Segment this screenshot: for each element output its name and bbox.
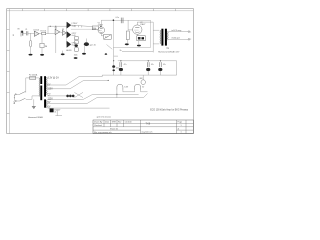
- wire filter cap feed vertical: [113, 48, 115, 76]
- transformer T1 core bar right lower: [44, 99, 46, 107]
- wire drop to NE1: [30, 33, 32, 40]
- jumper arc J3: [135, 84, 141, 90]
- svg-text:OP27: OP27: [72, 33, 77, 35]
- neon lamp NE1: [29, 40, 31, 47]
- wire heater rail lower bend: [144, 94, 148, 98]
- wire top bus: [48, 25, 67, 27]
- switch S1 pole A: [16, 93, 20, 95]
- transformer T2 secondary winding: [166, 32, 169, 40]
- svg-text:T-68: T-68: [146, 123, 151, 125]
- wire secondary tap C stub: [47, 95, 66, 97]
- ground symbol under NE1: [29, 54, 33, 56]
- wire ground rail B: [102, 74, 176, 76]
- svg-text:0.1u: 0.1u: [116, 17, 120, 19]
- svg-text:47u: 47u: [163, 64, 166, 66]
- title block horizontal line 1: [93, 122, 193, 124]
- resistor R6 series: [92, 26, 98, 30]
- wire primary feed vertical: [152, 22, 154, 52]
- transformer T1 primary winding: [38, 78, 41, 96]
- op-amp U4C: [67, 41, 71, 47]
- junction node V1 plate: [100, 26, 101, 27]
- wire rail C right drop: [176, 61, 178, 75]
- ground symbol mid: [61, 53, 65, 55]
- svg-text:330k: 330k: [92, 28, 96, 30]
- frame tick marks left edge: [7, 30, 10, 114]
- title block vertical 2: [110, 120, 112, 127]
- frame tick marks top edge: [23, 9, 176, 11]
- capacitor C6 filter: [120, 62, 122, 67]
- resistor R7 grid leak V2: [126, 31, 129, 40]
- wire R2 to ground: [41, 48, 43, 54]
- ground symbol under R7: [125, 43, 129, 45]
- wire feedback net: [71, 28, 96, 30]
- op-amp U2: [55, 29, 60, 34]
- junction heater rail: [116, 94, 117, 95]
- wire heater rail lower: [97, 97, 144, 99]
- wire secondary tap E stub: [47, 103, 87, 105]
- junction tap B rail: [108, 80, 109, 81]
- svg-text:2: 2: [190, 39, 191, 41]
- wire gnd stub: [114, 55, 118, 57]
- svg-text:115V: 115V: [48, 98, 54, 100]
- wire V1 plate run to shield box: [101, 19, 113, 21]
- wire jumper J2 left leg: [116, 90, 118, 98]
- title block vertical 7: [185, 120, 187, 134]
- junction filter vertical on rail: [113, 60, 114, 61]
- capacitor C2 polarized: [75, 44, 78, 47]
- svg-text:47u: 47u: [151, 64, 154, 66]
- capacitor C8 filter: [159, 62, 161, 67]
- wire NE1 to ground: [30, 47, 32, 54]
- wire B plus rail C: [118, 60, 177, 62]
- capacitor C3 coupling: [121, 18, 123, 24]
- wire down to V2 grid: [127, 20, 129, 30]
- plug pin A: [15, 94, 16, 95]
- ground symbol under feedback chain: [74, 57, 78, 59]
- wire jumper J3 left leg: [134, 90, 136, 92]
- resistor R2 grid leak: [40, 43, 44, 47]
- plug pin B: [15, 100, 16, 101]
- wire tap D diagonal up: [83, 94, 93, 99]
- svg-text:1.0 draft: 1.0 draft: [125, 120, 132, 123]
- wire bottom rail: [48, 107, 110, 109]
- resistor R3 feedback: [75, 37, 79, 40]
- wire jumper link: [123, 91, 135, 93]
- svg-text:AD620: AD620: [66, 49, 71, 52]
- cathode network box Rk Ck: [137, 36, 146, 41]
- potentiometer RV2: [104, 34, 112, 39]
- regulator VR1: [141, 80, 145, 85]
- wire tap E diagonal up: [87, 98, 97, 104]
- svg-text:1: 1: [181, 132, 182, 134]
- wire stack input vertical: [66, 25, 68, 44]
- shield box around output stage: [113, 20, 150, 47]
- wire tap B rail: [84, 79, 109, 81]
- wire trimmer stub: [85, 39, 87, 43]
- transformer T1 core bar right upper: [44, 76, 46, 96]
- wire stub net label riser: [56, 111, 58, 116]
- junction node box corner: [113, 19, 115, 21]
- wire buffer to R1: [39, 33, 41, 35]
- svg-text:ECG 100 kSa/s Amp for EKG Prea: ECG 100 kSa/s Amp for EKG Preamp: [150, 109, 189, 112]
- wire J3 out: [141, 91, 148, 93]
- wire primary top stub: [38, 77, 40, 79]
- ground symbol chassis: [32, 107, 36, 109]
- svg-text:Checked:: Checked:: [94, 125, 102, 127]
- wire R7 bottom to ground: [127, 40, 129, 44]
- wire jumper J3 right leg: [140, 90, 142, 92]
- svg-text:Sheet 1/1: Sheet 1/1: [110, 128, 118, 131]
- tube V1 triode: [98, 27, 105, 34]
- wire bottom rail left riser: [47, 107, 49, 109]
- wire secondary lead lower: [168, 38, 188, 40]
- svg-text:File: ecg-preamp.sch: File: ecg-preamp.sch: [94, 131, 112, 134]
- junction C6: [120, 60, 121, 61]
- svg-text:Drawn By:: Drawn By:: [94, 120, 103, 123]
- svg-text:Page: Page: [178, 121, 182, 123]
- transformer T2 primary winding: [159, 30, 162, 44]
- wire U4A output bus: [71, 25, 92, 27]
- title block outer: [93, 120, 193, 134]
- ground blob C5: [112, 69, 115, 71]
- wire pot wiper diagonal: [107, 45, 113, 50]
- transformer T2 core bar left: [161, 29, 163, 46]
- svg-text:1: 1: [190, 32, 191, 34]
- wire primary bottom lead: [153, 43, 159, 45]
- capacitor C7 filter: [147, 62, 149, 67]
- wire secondary lead upper: [168, 31, 188, 33]
- svg-text:C1: C1: [25, 29, 27, 31]
- title block vertical 5: [140, 120, 142, 134]
- sheet border outer frame: [7, 9, 194, 134]
- ground symbol under R2: [40, 54, 44, 56]
- wire chassis ground drop: [33, 99, 35, 106]
- capacitor C1: [26, 31, 28, 35]
- svg-text:12AX7: 12AX7: [98, 24, 103, 27]
- svg-text:LT1167: LT1167: [72, 23, 78, 25]
- svg-text:AC mains: AC mains: [13, 94, 16, 104]
- svg-text:100k: 100k: [74, 54, 78, 56]
- ground symbol under trimmer: [82, 53, 86, 55]
- trimmer RV1: [84, 42, 89, 46]
- transformer T1 core bar left upper: [40, 76, 42, 84]
- wire B+ top run: [137, 21, 153, 23]
- capacitor C4 cathode bypass: [142, 37, 145, 39]
- title block horizontal line 3: [93, 129, 141, 131]
- svg-text:12AX7: 12AX7: [140, 23, 145, 26]
- title block vertical 6: [176, 120, 178, 134]
- wire R2 top: [41, 35, 43, 44]
- wire secondary tap D stub: [47, 99, 82, 101]
- wire primary bottom stub: [38, 95, 40, 97]
- wire V1 cathode down: [100, 34, 102, 36]
- svg-text:shield gnd: shield gnd: [171, 38, 179, 40]
- resistor R4 feedback: [75, 41, 79, 44]
- svg-text:G=10: G=10: [72, 35, 76, 37]
- resistor R8 cathode: [138, 37, 141, 40]
- terminal pin lower: [188, 39, 190, 41]
- svg-text:ecg-tube.sch: ecg-tube.sch: [142, 131, 153, 134]
- junction C8: [160, 60, 161, 61]
- tube V2 triode: [133, 25, 142, 34]
- rectifier D1 block: [50, 109, 54, 113]
- title block horizontal line 2: [93, 126, 193, 128]
- title block texts: [94, 120, 182, 133]
- wire node riser: [47, 26, 49, 33]
- capacitor C5 reservoir: [112, 65, 115, 68]
- wire V2 cathode down: [136, 34, 138, 35]
- svg-text:B+: B+: [120, 50, 122, 52]
- wire trimmer ground stub: [84, 46, 86, 53]
- ground symbol cathode: [137, 45, 141, 47]
- wire crossover diagonal A: [74, 92, 83, 97]
- wire stub net label: [55, 115, 62, 117]
- svg-text:100u: 100u: [116, 67, 120, 69]
- junction node B: [55, 26, 56, 27]
- wire V1 plate up: [100, 20, 102, 27]
- svg-text:47u: 47u: [124, 64, 127, 66]
- transformer T1 core bar left lower: [40, 86, 42, 101]
- svg-text:x4: x4: [54, 112, 56, 114]
- svg-text:0B2: 0B2: [140, 78, 143, 80]
- wire fuse to primary: [36, 77, 39, 79]
- wire primary top lead: [153, 29, 159, 31]
- op-amp U3: [62, 30, 66, 35]
- wire R6 to V1 grid: [98, 30, 99, 32]
- op-amp U1 buffer: [34, 31, 39, 36]
- wire VR1 stub: [142, 75, 144, 80]
- op-amp U4B: [67, 32, 71, 38]
- transformer T1 secondary winding upper: [45, 77, 48, 94]
- ground stub mid: [62, 51, 64, 54]
- wire switch A to fuse: [25, 78, 27, 93]
- svg-text:5V: 5V: [48, 102, 51, 104]
- wire into U2: [48, 33, 55, 35]
- wire V2 plate up: [136, 22, 138, 25]
- title block vertical 4: [123, 120, 125, 127]
- wire V1 cathode to pot: [101, 35, 103, 37]
- wire tap A rail: [79, 76, 102, 78]
- junction C7: [148, 60, 149, 61]
- svg-text:R1 10k: R1 10k: [41, 31, 47, 33]
- jumper arc J2: [117, 84, 123, 90]
- svg-text:1998: 1998: [112, 121, 116, 123]
- diode D4: [72, 95, 75, 98]
- diode D2: [66, 95, 69, 98]
- wire input to buffer: [23, 32, 27, 34]
- junction node A: [50, 26, 51, 27]
- sheet border inner line left: [8, 9, 10, 134]
- title block vertical 3: [116, 120, 118, 127]
- transformer T1 secondary winding lower: [45, 100, 48, 108]
- connector J1 input electrode: [21, 31, 23, 37]
- svg-text:Rev: Rev: [118, 121, 121, 123]
- svg-text:gnd ref to chassis: gnd ref to chassis: [97, 115, 111, 118]
- title block vertical 1: [103, 120, 105, 127]
- svg-text:Date: Date: [105, 120, 109, 123]
- svg-text:6.3V @ 2A: 6.3V @ 2A: [48, 76, 60, 79]
- switch S1 pole B: [16, 100, 20, 102]
- wire switch B to primary bottom: [26, 98, 32, 100]
- op-amp U4A: [67, 22, 71, 28]
- wire rail riser: [101, 75, 103, 77]
- wire tick c: [81, 26, 83, 28]
- svg-text:F1 100mA: F1 100mA: [29, 74, 38, 77]
- wire tap A diagonal: [66, 77, 79, 85]
- wire jumper J2 right leg: [122, 90, 124, 92]
- wire cathode net to ground: [138, 41, 140, 45]
- junction blob under pot: [105, 53, 107, 55]
- wire heater rail upper: [93, 93, 139, 95]
- svg-text:Hammond 369AX: Hammond 369AX: [28, 116, 44, 119]
- fuse F1: [30, 77, 36, 80]
- svg-text:to ECG amp: to ECG amp: [171, 29, 181, 32]
- svg-text:U1 buf: U1 buf: [33, 29, 39, 31]
- svg-text:gain 10: gain 10: [90, 45, 96, 47]
- resistor R1: [42, 32, 46, 35]
- svg-text:Hammond 119DA 1:137: Hammond 119DA 1:137: [158, 51, 180, 54]
- wire B plus return run: [122, 50, 153, 52]
- svg-text:1: 1: [181, 125, 182, 127]
- transformer T2 core bar right: [165, 29, 167, 46]
- wire secondary tap B stub: [47, 88, 70, 90]
- wire R1 to node: [46, 33, 48, 35]
- wire vertical divider: [55, 26, 57, 53]
- resistor R5: [75, 48, 79, 51]
- wire tick b: [77, 26, 79, 28]
- wire tap B diagonal: [70, 80, 84, 88]
- wire U2 to U3: [60, 31, 62, 34]
- wire tick a: [74, 25, 76, 27]
- diode D3: [69, 95, 72, 98]
- terminal pin upper: [188, 31, 190, 33]
- sheet border inner line top: [7, 10, 194, 12]
- wire secondary tap A stub: [47, 84, 66, 86]
- wire crossover diagonal B: [74, 92, 83, 97]
- title block horizontal line 3 right: [177, 129, 194, 131]
